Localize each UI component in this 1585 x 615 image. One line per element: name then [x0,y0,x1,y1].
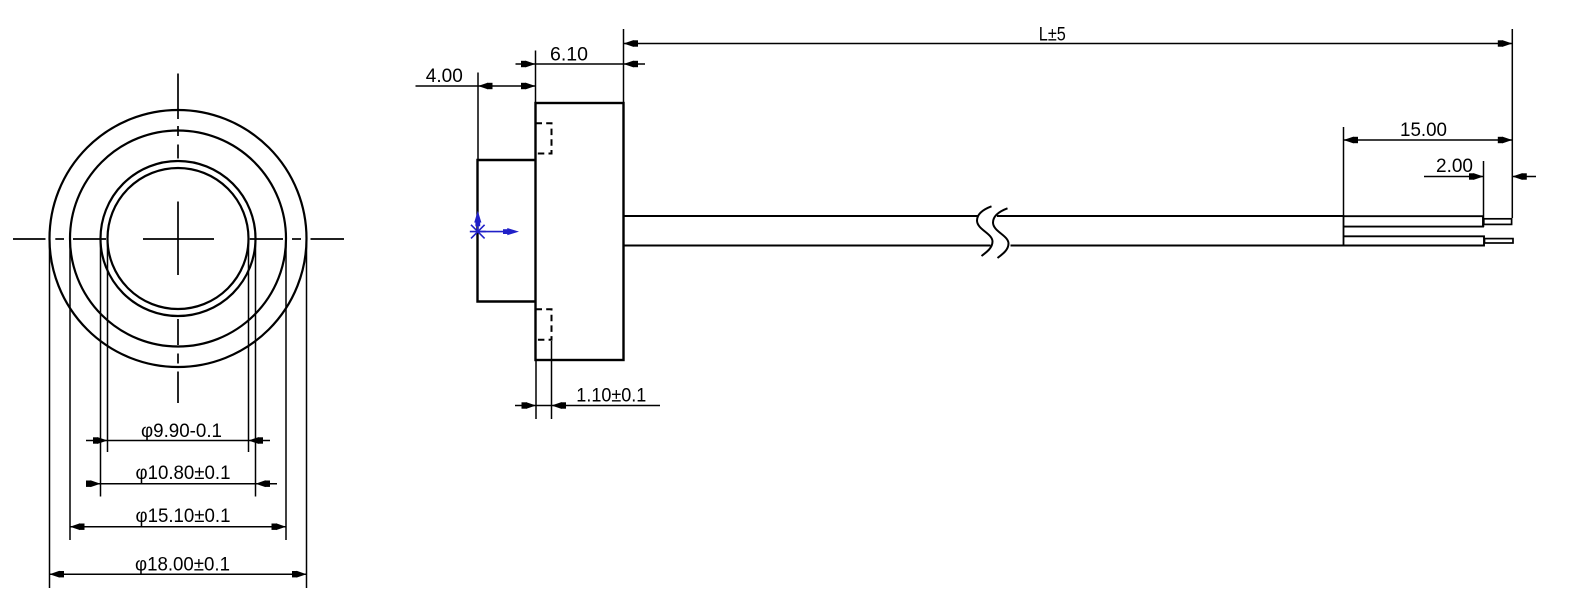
extension lines front view [50,240,307,588]
svg-text:1.10±0.1: 1.10±0.1 [576,386,646,407]
dimension 15.00 [1344,120,1513,143]
ext line wire1 insulation end (2.00 left) [1483,161,1485,227]
ext line φ18 right [306,240,308,588]
svg-text:φ9.90-0.1: φ9.90-0.1 [141,421,222,442]
dimension L±5 [624,25,1513,47]
dimension 2.00 [1424,156,1536,180]
outer circle φ18.00 [50,110,307,367]
ext line body left top (6.10 / 4.00 right) [535,51,537,103]
front boss rectangle [478,160,536,302]
hidden notch bottom (dashed) [536,309,552,339]
main body rectangle [536,103,624,360]
origin marker (blue coordinate system) [470,211,519,239]
ext line φ15.10 right [285,240,287,540]
svg-text:4.00: 4.00 [426,66,463,87]
svg-text:φ15.10±0.1: φ15.10±0.1 [136,506,231,527]
svg-text:15.00: 15.00 [1400,120,1447,141]
circle φ9.90 [108,168,249,309]
origin Y axis arrow [477,222,479,232]
vertical centerline [177,74,179,404]
cable break squiggle left [977,206,993,256]
ext line notch bottom (1.10 right) [551,341,553,419]
circle φ15.10 [70,131,286,347]
ext line boss left (4.00 left) [477,73,479,160]
dimension φ9.90-0.1 [86,421,270,444]
cable break squiggle right [993,208,1009,258]
ext line φ15.10 left [69,240,71,540]
origin X axis arrow [478,231,508,233]
origin star [470,225,486,239]
svg-text:6.10: 6.10 [550,45,588,66]
wire 2 bare conductor [1485,239,1514,243]
dimension 6.10 [516,45,646,68]
ext line φ9.90 left [107,240,109,452]
dimension φ18.00±0.1 [50,554,307,577]
ext line φ18 left [49,240,51,588]
ext line φ10.80 right [255,240,257,497]
horizontal centerline [13,238,344,240]
wire 1 bare conductor [1484,219,1512,225]
wire 1 (top) insulation [1344,216,1484,226]
svg-text:2.00: 2.00 [1436,156,1473,177]
hidden notch top (dashed) [536,123,552,153]
cable jacket bottom line [624,245,991,247]
ext line jacket end (15.00 left) [1343,127,1345,215]
wire 2 (bottom) insulation [1344,236,1485,245]
ext line body left bottom (1.10 left) [535,361,537,419]
dimension 1.10±0.1 [515,386,660,409]
dimension 4.00 [416,66,536,89]
ext line φ9.90 right [248,240,250,452]
circle φ10.80 [101,161,256,316]
extension lines side view [478,29,1512,419]
ext line φ10.80 left [100,240,102,497]
ext line cable end right (L±5 / 15.00 / 2.00 right) [1511,29,1513,218]
cable jacket end cap [1343,215,1345,247]
dimension φ15.10±0.1 [70,506,286,530]
svg-text:φ10.80±0.1: φ10.80±0.1 [136,463,231,484]
svg-text:L±5: L±5 [1039,25,1066,46]
dimension φ10.80±0.1 [86,463,277,487]
svg-text:φ18.00±0.1: φ18.00±0.1 [135,554,230,575]
cable jacket top line [624,215,978,217]
ext line body right top (6.10 / L±5 left) [623,29,625,102]
